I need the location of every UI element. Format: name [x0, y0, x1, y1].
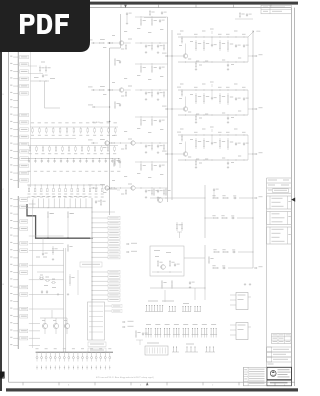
resistor R455	[212, 267, 214, 269]
resistor R245	[163, 91, 165, 93]
capacitor C300	[29, 158, 30, 159]
resistor R453	[213, 251, 215, 253]
capacitor C312	[105, 158, 106, 159]
resistor R355	[227, 138, 229, 141]
resistor R410	[90, 185, 91, 186]
transistor Q22	[119, 88, 123, 92]
resistor R446	[176, 222, 178, 224]
wire output	[248, 55, 253, 57]
wire mux U1 line 2	[92, 222, 108, 224]
resistor R151	[114, 101, 116, 103]
diode D14	[95, 352, 97, 356]
test point TP16	[104, 366, 106, 370]
bus wire	[91, 198, 93, 340]
resistor R407	[71, 185, 72, 186]
wire	[177, 231, 182, 233]
amp stage B3 top rail	[178, 134, 248, 136]
connector J2 pin 15	[13, 301, 18, 303]
wire	[29, 345, 40, 347]
test point TP13	[91, 366, 93, 370]
capacitor C306	[67, 158, 68, 159]
connector J1 pin 11	[13, 121, 18, 123]
capacitor C142	[157, 45, 159, 46]
top rail	[135, 16, 168, 18]
capacitor C351	[211, 142, 213, 143]
wire	[114, 89, 119, 91]
connector J2	[17, 196, 19, 349]
ground	[52, 258, 54, 259]
capacitor C151	[211, 44, 213, 45]
resistor R451	[169, 260, 171, 262]
connector J1 pin 17	[13, 165, 18, 167]
diode D2	[41, 352, 43, 356]
connector J1 pin 18	[13, 172, 18, 174]
diode D9	[72, 352, 74, 356]
wire	[230, 294, 236, 296]
wire	[238, 251, 253, 253]
connector J2 pin 7	[13, 242, 18, 244]
capacitor C450	[174, 263, 176, 264]
connector J2 pin 19	[13, 330, 18, 332]
transistor Q61	[53, 323, 58, 328]
wire	[237, 217, 253, 219]
resistor R442	[125, 189, 127, 190]
resistor R201	[36, 146, 38, 148]
wire label 407.1	[107, 189, 117, 190]
capacitor C12	[246, 13, 248, 14]
connector J1 pin 6	[13, 85, 18, 87]
resistor R356	[195, 160, 197, 161]
resistor network RN2	[28, 145, 118, 147]
wire output arrow	[228, 267, 253, 269]
wire mux U2 line 4	[92, 285, 108, 287]
resistor R403	[52, 246, 54, 248]
test point TP7	[63, 366, 65, 370]
approval row 3	[267, 357, 292, 362]
resistor R441	[165, 188, 167, 190]
ground	[157, 51, 159, 52]
resistor R103	[52, 127, 54, 129]
wire mux U1 line 8	[92, 251, 108, 253]
capacitor C153	[227, 64, 229, 65]
diode D1	[36, 352, 38, 356]
capacitor C243	[159, 66, 161, 67]
diode D15	[100, 352, 102, 356]
capacitor C341	[145, 145, 147, 146]
capacitor C302	[41, 158, 42, 159]
resistor R100	[32, 127, 34, 129]
capacitor C301	[35, 158, 36, 159]
resistor R446	[151, 163, 153, 165]
resistor network RN1	[30, 126, 118, 128]
capacitor C442	[157, 190, 159, 191]
resistor R352	[195, 138, 197, 141]
resistor array RA4	[194, 311, 201, 313]
resistor R150	[114, 58, 116, 60]
transistor array TA4	[173, 334, 180, 336]
connector J2 pin 16	[13, 308, 18, 310]
resistor R105	[66, 127, 68, 129]
wire	[29, 279, 64, 281]
capacitor C353	[227, 162, 229, 163]
connector J2 pin 1	[13, 199, 18, 201]
resistor R443	[222, 197, 224, 199]
transistor array TA2	[154, 334, 161, 336]
amp stage A1 input arrow	[88, 39, 93, 40]
wire	[247, 90, 249, 115]
connector J1 pin 4	[13, 71, 18, 73]
capacitor C412	[46, 290, 48, 291]
wire	[28, 73, 43, 75]
capacitor C251	[211, 97, 213, 98]
wire mux U1 line 7	[92, 246, 108, 248]
capacitor C441	[231, 217, 232, 219]
resistor R210	[94, 146, 96, 148]
resistor R456	[161, 280, 163, 282]
wire	[150, 287, 205, 289]
capacitor C352	[235, 142, 237, 143]
wire	[29, 264, 64, 266]
connector J1 pin 1	[13, 49, 18, 51]
capacitor C307	[73, 158, 74, 159]
wire mux U1 line 3	[92, 227, 108, 229]
wire	[91, 237, 93, 239]
approval row 2	[267, 352, 292, 357]
stamp box ST1	[261, 5, 291, 14]
capacitor C452	[222, 267, 223, 269]
wire arrow MUTE 1	[126, 243, 129, 245]
resistor array RA1	[145, 311, 163, 313]
test point TP6	[59, 366, 61, 370]
resistor R411	[96, 185, 97, 186]
resistor R354	[219, 138, 221, 141]
wire mux U1 line 9	[92, 256, 108, 258]
wire arrow MUTE 2	[126, 251, 129, 253]
bus wire	[32, 200, 34, 348]
wire	[42, 248, 44, 252]
resistor R310	[135, 330, 137, 332]
resistor R3	[39, 66, 41, 68]
resistor R256	[195, 115, 197, 116]
wire	[77, 270, 79, 295]
transistor array TA6	[192, 334, 199, 336]
resistor R445	[163, 189, 165, 191]
wire	[63, 248, 65, 352]
connector J2 pin 6	[13, 235, 18, 237]
transistor Q45	[158, 198, 163, 203]
wire output	[248, 108, 253, 110]
wire	[40, 317, 67, 319]
resistor R154	[219, 40, 221, 43]
title text	[278, 369, 290, 370]
amp stage A3 input arrow	[88, 139, 93, 140]
capacitor C313	[112, 158, 113, 159]
connector J2 pin 4	[13, 220, 18, 222]
wire mux U1 line 6	[92, 242, 108, 244]
approval row 1	[267, 347, 292, 352]
resistor R454	[222, 251, 224, 253]
resistor R212	[107, 146, 109, 148]
resistor R209	[88, 146, 90, 148]
title column frame	[266, 178, 268, 386]
ground	[57, 293, 59, 294]
wire MIX BUS	[107, 121, 110, 123]
connector J1	[17, 49, 19, 189]
resistor R243	[140, 65, 142, 67]
diode D11	[82, 352, 84, 356]
resistor R208	[81, 146, 83, 148]
top rail	[135, 63, 168, 65]
notes block	[244, 367, 267, 386]
bottom rail	[178, 61, 248, 63]
capacitor C310	[142, 332, 144, 333]
resistor R405	[59, 185, 60, 186]
connector J1 pin 14	[13, 143, 18, 145]
diode D13	[91, 352, 93, 356]
resistor R452	[208, 256, 210, 258]
wire	[29, 250, 64, 252]
wire	[135, 89, 167, 91]
ground	[145, 51, 147, 52]
capacitor C141	[145, 45, 147, 46]
diode D4	[50, 352, 52, 356]
capacitor C342	[157, 145, 159, 146]
transistor Q46	[161, 265, 166, 270]
diode D3	[45, 352, 47, 356]
wire	[29, 235, 64, 237]
resistor R145	[163, 44, 165, 46]
resistor chain R410	[36, 257, 40, 258]
wire input	[162, 53, 167, 54]
label MUTE bus	[80, 262, 102, 267]
connector J1 pin 5	[13, 78, 18, 80]
revision pointer	[291, 198, 295, 202]
wire arrow SRC 2	[122, 326, 125, 328]
scale table	[272, 334, 292, 344]
capacitor C310	[93, 158, 94, 159]
resistor R156	[195, 62, 197, 63]
resistor R330	[113, 159, 115, 161]
diode D8	[68, 352, 70, 356]
resistor R457	[171, 280, 173, 282]
resistor R252	[195, 93, 197, 96]
connector J1 pin 2	[13, 56, 18, 58]
resistor R142	[125, 44, 127, 45]
resistor R108	[87, 127, 89, 129]
wire	[184, 257, 205, 259]
wire	[29, 323, 40, 325]
wire output arrow	[239, 197, 253, 199]
amp stage A2 input arrow	[88, 86, 93, 87]
ground	[145, 151, 147, 152]
diode D5	[54, 352, 56, 356]
resistor R411	[69, 274, 71, 277]
ground	[195, 121, 197, 122]
resistor R141	[107, 42, 109, 44]
revision table header	[267, 177, 292, 179]
capacitor C152	[119, 160, 121, 161]
test point TP15	[100, 366, 102, 370]
ground	[189, 286, 191, 287]
transistor array TA7	[201, 334, 208, 336]
resistor R153	[203, 40, 205, 43]
capacitor C143	[159, 19, 161, 20]
resistor R211	[101, 146, 103, 148]
resistor R346	[151, 118, 153, 120]
capacitor C343	[159, 119, 161, 120]
connector J1 pin 7	[13, 92, 18, 94]
test point TP14	[95, 366, 97, 370]
wire	[29, 308, 64, 310]
title block	[267, 367, 292, 379]
capacitor C252	[235, 97, 237, 98]
capacitor C154	[243, 44, 245, 45]
resistor R140	[98, 42, 100, 44]
resistor R143	[140, 18, 142, 20]
transistor Q15	[183, 54, 187, 58]
diode D16	[104, 352, 106, 356]
bus wire	[171, 30, 173, 200]
resistor array RA2	[168, 311, 176, 313]
ground	[195, 68, 197, 69]
resistor R402	[67, 211, 69, 213]
ground	[227, 166, 229, 167]
capacitor C411	[41, 290, 43, 291]
transistor Q31	[105, 141, 109, 145]
capacitor C2	[42, 74, 44, 75]
resistor R404	[67, 244, 69, 246]
ground	[157, 196, 159, 197]
wire	[136, 339, 143, 341]
resistor R205	[62, 146, 64, 148]
resistor R244	[151, 91, 153, 93]
transistor Q62	[64, 323, 69, 328]
wire	[135, 187, 167, 189]
resistor array RA5	[172, 351, 179, 353]
connector J2 pin 8	[13, 250, 18, 252]
resistor R146	[151, 18, 153, 20]
wire	[152, 271, 182, 273]
wire	[247, 135, 249, 160]
wire	[44, 81, 46, 108]
test point TP9	[72, 366, 74, 370]
connector J2 pin 17	[13, 315, 18, 317]
wire output	[248, 153, 253, 155]
resistor R447	[181, 222, 183, 224]
wire	[29, 330, 40, 332]
resistor R30	[149, 10, 151, 11]
test point TP3	[45, 366, 47, 370]
resistor R442	[212, 197, 214, 199]
resistor R450	[157, 260, 159, 262]
transistor Q42	[131, 186, 135, 190]
resistor R155	[227, 40, 229, 43]
bottom rail	[178, 114, 248, 116]
top rail	[135, 116, 168, 118]
capacitor C152	[235, 44, 237, 45]
resistor R402	[41, 185, 42, 186]
resistor array RA6	[185, 351, 198, 353]
wire input	[162, 106, 167, 107]
resistor R152	[114, 158, 116, 160]
ground	[145, 98, 147, 99]
wire mux U3 out 2	[105, 310, 113, 312]
diode D17	[109, 352, 111, 356]
resistor R202	[42, 146, 44, 148]
wire mux U2 line 7	[92, 299, 108, 301]
resistor R107	[80, 127, 82, 129]
connector J2 pin 10	[13, 264, 18, 266]
capacitor C305	[61, 158, 62, 159]
resistor R112	[114, 127, 116, 129]
capacitor C253	[227, 117, 229, 118]
capacitor C354	[243, 142, 245, 143]
resistor R101	[38, 127, 40, 129]
form row	[268, 364, 274, 365]
revision group 3	[267, 227, 292, 244]
wire	[164, 290, 166, 302]
ground	[195, 166, 197, 167]
resistor R445	[221, 217, 223, 219]
resistor R409	[83, 185, 84, 186]
revision group 1	[267, 196, 292, 209]
wire	[144, 17, 166, 19]
resistor R152	[195, 40, 197, 43]
resistor R110	[101, 127, 103, 129]
resistor R242	[125, 91, 127, 92]
connector J1 pin 10	[13, 114, 18, 116]
ground	[244, 283, 246, 284]
transistor Q60	[42, 323, 47, 328]
wire	[204, 185, 206, 238]
wire	[114, 42, 119, 44]
wire mux U2 line 1	[92, 271, 108, 273]
capacitor C241	[145, 92, 147, 93]
resistor R240	[98, 89, 100, 91]
amp stage B2 top rail	[178, 89, 248, 91]
connector J1 pin 15	[13, 150, 18, 152]
wire	[27, 207, 92, 209]
wire mux U1 line 5	[92, 237, 108, 239]
transistor array TA8	[210, 334, 217, 336]
wire	[150, 197, 205, 199]
switch block S1 outline	[150, 246, 184, 276]
capacitor C453	[189, 281, 191, 282]
resistor R406	[65, 185, 66, 186]
test point TP17	[109, 366, 111, 370]
capacitor C11	[161, 11, 163, 12]
resistor R207	[75, 146, 77, 148]
resistor R344	[151, 144, 153, 146]
wire	[29, 203, 36, 205]
capacitor C309	[86, 158, 87, 159]
capacitor C308	[80, 158, 81, 159]
resistor R408	[77, 185, 78, 186]
IC U3 outline	[88, 302, 105, 340]
resistor R106	[73, 127, 75, 129]
connector J2 pin 11	[13, 272, 18, 274]
capacitor C301	[95, 200, 97, 201]
wire	[235, 18, 253, 20]
resistor array RA7	[205, 351, 215, 353]
wire mux U1 line 4	[92, 232, 108, 234]
wire	[204, 290, 206, 300]
wire	[116, 187, 131, 189]
diode D6	[59, 352, 61, 356]
resistor R4	[45, 66, 47, 68]
connector J1 pin 9	[13, 107, 18, 109]
wire	[47, 219, 49, 238]
